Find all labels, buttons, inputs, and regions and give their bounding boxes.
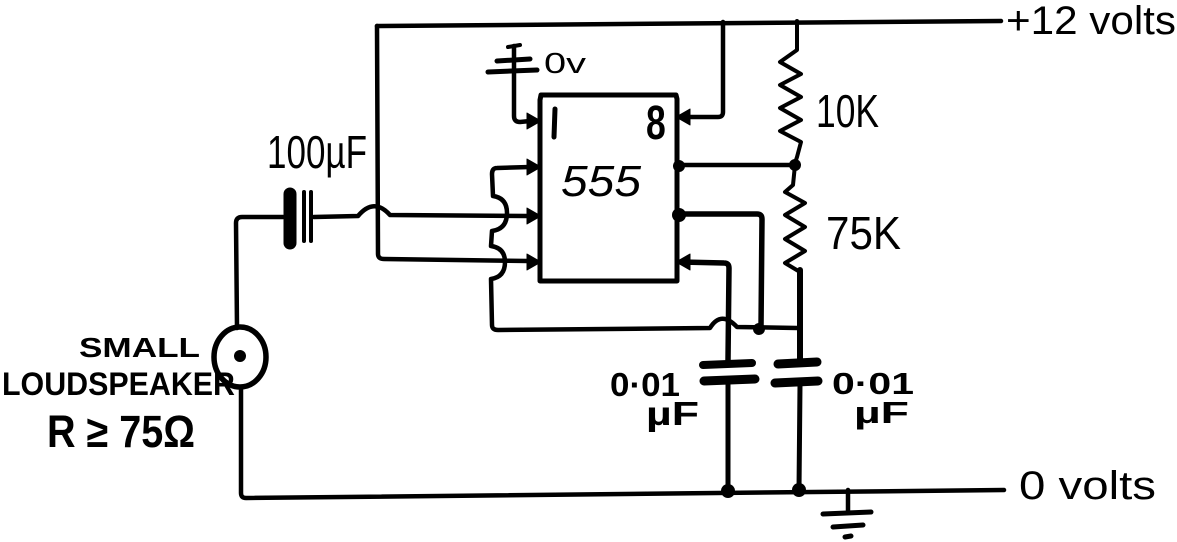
svg-text:µF: µF bbox=[646, 395, 699, 432]
svg-text:R ≥ 75Ω: R ≥ 75Ω bbox=[47, 406, 195, 457]
svg-text:75K: 75K bbox=[826, 207, 901, 259]
svg-text:0v: 0v bbox=[544, 48, 587, 80]
svg-text:+12 volts: +12 volts bbox=[1006, 0, 1176, 43]
svg-text:100µF: 100µF bbox=[267, 126, 367, 178]
svg-text:555: 555 bbox=[561, 157, 642, 206]
svg-text:µF: µF bbox=[854, 395, 909, 430]
svg-text:10K: 10K bbox=[816, 85, 879, 137]
svg-text:0 volts: 0 volts bbox=[1019, 464, 1156, 508]
svg-text:SMALL: SMALL bbox=[79, 332, 200, 363]
svg-text:8: 8 bbox=[646, 96, 666, 149]
svg-text:LOUDSPEAKER: LOUDSPEAKER bbox=[2, 366, 235, 402]
